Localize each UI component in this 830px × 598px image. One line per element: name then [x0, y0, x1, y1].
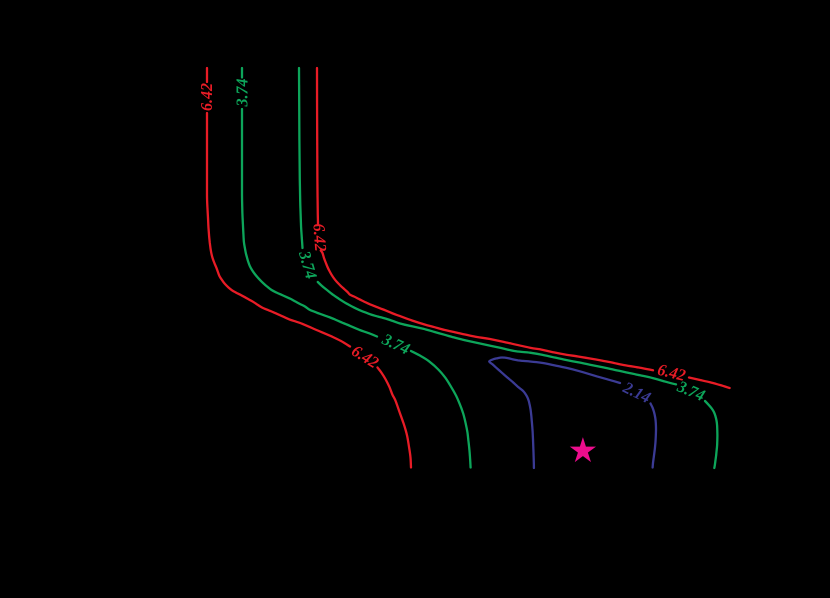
- green contour 3.74 inner: long diagonal: [318, 282, 676, 384]
- red contour 6.42 inner: dash exiting right edge: [689, 378, 730, 389]
- green contour 3.74 outer: vertical branch, elbow and diagonal to label gap: [242, 109, 377, 337]
- green contour 3.74 inner: right bend and leg to x-axis: [705, 401, 717, 468]
- red contour 6.42 outer: top tick above vertical label: [206, 68, 208, 82]
- best-fit point marker (magenta star): [572, 440, 594, 461]
- blue contour 2.14: right bend and leg to x-axis: [651, 404, 657, 468]
- red contour 6.42 outer: descending leg to x-axis: [378, 368, 412, 468]
- red contour 6.42 inner: vertical branch to steep label gap: [317, 68, 318, 224]
- svg-text:6.42: 6.42: [309, 223, 330, 252]
- svg-text:3.74: 3.74: [233, 79, 252, 108]
- green contour 3.74 outer: descending leg to x-axis: [411, 351, 471, 468]
- red contour 6.42 outer: vertical branch, elbow and diagonal to label gap: [207, 113, 350, 347]
- blue contour 2.14: left leg, apex hook and top diagonal: [489, 358, 620, 469]
- green contour 3.74 outer: top tick above vertical label: [241, 68, 243, 78]
- green contour 3.74 inner: vertical branch to steep label gap: [299, 68, 303, 248]
- red contour 6.42 inner: long diagonal: [321, 251, 653, 371]
- svg-text:6.42: 6.42: [197, 83, 216, 111]
